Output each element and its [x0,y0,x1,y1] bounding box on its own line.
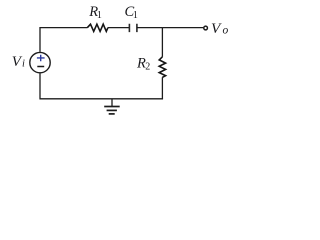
wire: R1 to C1 [108,27,130,29]
minus sign [37,66,44,68]
label R2 [136,56,150,73]
wire: R2 top lead [161,28,163,57]
svg-text:1: 1 [97,10,102,21]
label R1 [88,4,102,21]
label C1 [125,4,138,21]
capacitor C1 [129,24,137,32]
svg-text:i: i [22,59,25,70]
plus sign [37,55,45,61]
resistor R1 [87,24,108,31]
voltage source Vi [30,52,50,72]
label Vi [12,54,25,70]
wire: bottom (Vi to R2) [39,74,163,99]
ground [104,99,120,114]
svg-text:1: 1 [133,10,138,21]
svg-text:2: 2 [145,62,150,73]
svg-text:o: o [223,25,229,37]
wire: Vi top lead and top-left corner to R1 [40,28,88,52]
svg-text:V: V [211,20,222,37]
label Vo [211,20,229,37]
resistor R2 [159,57,165,78]
terminal Vo (open circle) [204,26,208,30]
wire: C1 to output node [137,27,163,29]
wire: output node to Vo terminal [162,27,203,29]
wire: R2 bottom lead [161,77,163,99]
